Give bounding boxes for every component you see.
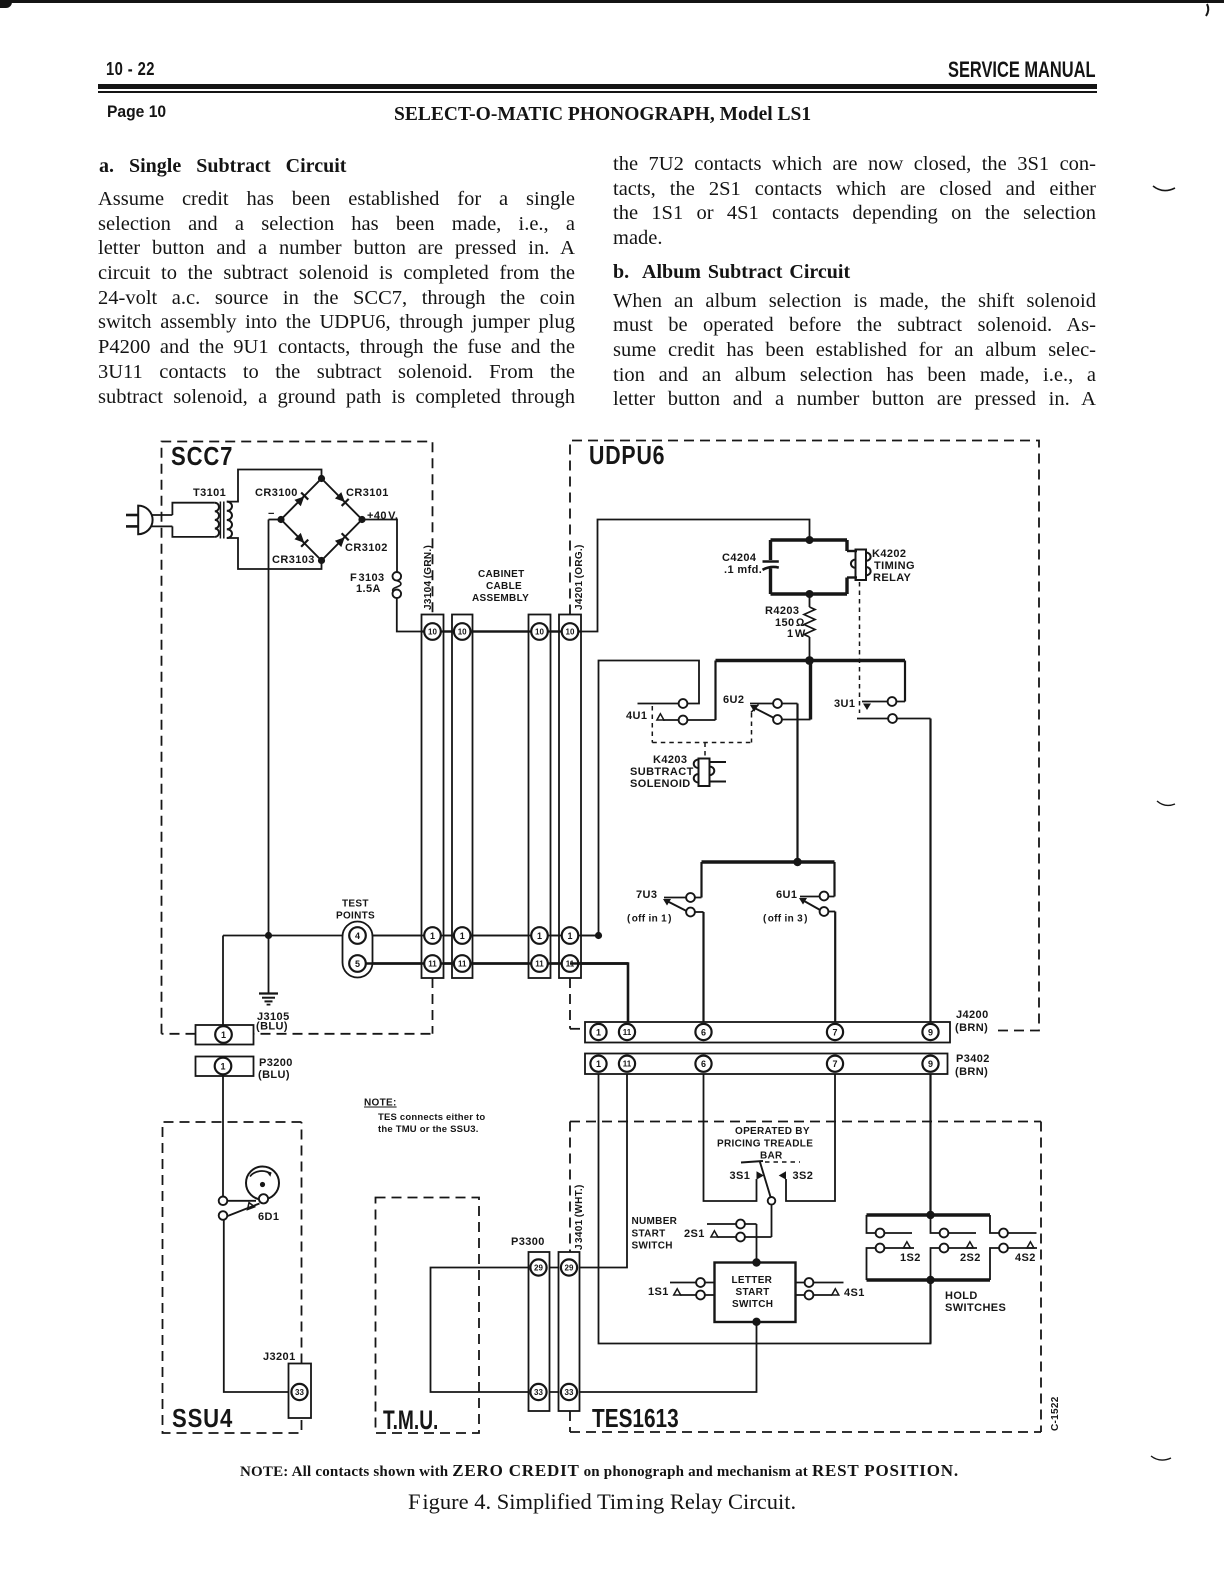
bus down to 6U2 lower contact [809, 661, 812, 720]
svg-text:(BRN): (BRN) [955, 1022, 988, 1034]
test point 4 [349, 927, 366, 944]
svg-text:UDPU6: UDPU6 [589, 441, 665, 471]
diode CR3102 [335, 533, 349, 547]
svg-text:NOTE:: NOTE: [364, 1098, 397, 1109]
svg-text:CABINET: CABINET [478, 569, 525, 580]
wire 6U1 lower to J4200 pin 7 [834, 912, 836, 1023]
svg-text:4S1: 4S1 [844, 1287, 865, 1299]
bus right end down to 3U1 upper contact [904, 661, 906, 702]
switch 3S1 contact [757, 1171, 764, 1179]
switch 2S1 [707, 1220, 772, 1242]
left column body [98, 188, 575, 410]
switch 1S1 [670, 1278, 715, 1299]
Page 10 [107, 102, 166, 122]
wire P3402 pin9 down to hold switches [929, 1074, 931, 1215]
svg-text:1: 1 [460, 931, 465, 941]
svg-text:1: 1 [596, 1028, 601, 1038]
P3402 connector row [585, 1054, 948, 1075]
wire 6D1 lower down to J3201 pin 33 [224, 1220, 289, 1392]
svg-text:3S1: 3S1 [730, 1170, 751, 1182]
stray mark right margin 1 [1153, 186, 1175, 191]
J3201 connector box [289, 1364, 312, 1419]
hold switches top rail [867, 1213, 991, 1216]
svg-text:SWITCHES: SWITCHES [945, 1302, 1006, 1314]
diode CR3103 [294, 533, 308, 547]
junction bus [805, 656, 814, 665]
svg-text:SWITCH: SWITCH [732, 1299, 773, 1310]
svg-text:CABLE: CABLE [486, 581, 522, 592]
loop bottom [771, 592, 848, 595]
switch 7U3 [663, 893, 704, 916]
svg-text:1.5A: 1.5A [356, 583, 381, 595]
svg-text:the TMU or the SSU3.: the TMU or the SSU3. [378, 1124, 479, 1135]
junction at loop bottom [806, 590, 814, 598]
connector column J4201 [559, 615, 581, 979]
junction at loop top [806, 536, 814, 544]
diode CR3101 [335, 492, 349, 506]
svg-text:T.M.U.: T.M.U. [383, 1405, 438, 1435]
svg-text:P3402: P3402 [956, 1053, 990, 1065]
svg-text:10: 10 [458, 628, 467, 637]
svg-text:1S2: 1S2 [900, 1252, 921, 1264]
wire bottom rail down to pin1 return [929, 1280, 931, 1344]
svg-text:5: 5 [355, 959, 360, 969]
svg-text:9: 9 [928, 1028, 933, 1038]
svg-text:C4204: C4204 [722, 552, 757, 564]
loop left with capacitor gap [769, 540, 772, 560]
svg-text:J 3401 (WHT.): J 3401 (WHT.) [574, 1184, 585, 1250]
svg-text:BAR: BAR [760, 1151, 783, 1162]
svg-text:9: 9 [928, 1059, 933, 1069]
capacitor C4204 [763, 562, 779, 570]
svg-text:1: 1 [221, 1030, 226, 1040]
wires between P3300 and J3401 [539, 1267, 570, 1269]
svg-text:4U1: 4U1 [626, 710, 647, 722]
wire: pin 10 row across cabinet cable [421, 630, 570, 632]
switch 6D1 [219, 1197, 260, 1220]
wire 7U3 lower to J4200 pin 6 [702, 912, 704, 1022]
svg-text:1: 1 [567, 931, 572, 941]
bus left end down to 4U1 lower wire [714, 661, 716, 721]
SCC7 unit dashed border [162, 442, 433, 1034]
stray mark right margin 2 [1157, 801, 1175, 805]
wire resistor to junction [809, 637, 811, 661]
svg-text:J4201 (ORG.): J4201 (ORG.) [574, 544, 585, 610]
svg-text:11: 11 [428, 960, 437, 969]
treadle switch arm [760, 1161, 771, 1198]
resistor R4203 [804, 607, 815, 637]
svg-text:SWITCH: SWITCH [632, 1241, 673, 1252]
svg-text:TEST: TEST [342, 899, 369, 910]
svg-text:3S2: 3S2 [793, 1170, 814, 1182]
svg-text:1 W: 1 W [787, 628, 806, 640]
svg-text:C-1522: C-1522 [1050, 1396, 1061, 1431]
junction ground net [265, 932, 272, 939]
test points stadium [343, 922, 373, 978]
TMU jumper loop pins 29-33 [431, 1268, 539, 1393]
svg-text:(BLU): (BLU) [256, 1021, 288, 1033]
switch 4S1 [796, 1278, 844, 1299]
header left: 10 - 22 [106, 59, 155, 80]
svg-text:33: 33 [534, 1388, 543, 1397]
switch 2S2 [931, 1215, 978, 1280]
main thick bus at 660.5 [716, 659, 906, 662]
cable column right pins [531, 623, 548, 640]
letter start switch box [715, 1263, 796, 1323]
arm wire down to 2S1 [771, 1205, 773, 1237]
bottom note [240, 1461, 959, 1481]
connector column cabinet cable right [529, 615, 551, 979]
timing relay loop top [771, 538, 848, 541]
T.M.U. unit dashed border [376, 1198, 480, 1434]
svg-text:T3101: T3101 [193, 487, 226, 499]
svg-text:11: 11 [535, 960, 544, 969]
svg-text:4S2: 4S2 [1015, 1252, 1036, 1264]
svg-text:J3104 (GRN.): J3104 (GRN.) [423, 545, 434, 610]
svg-text:OPERATED BY: OPERATED BY [735, 1126, 810, 1137]
svg-text:PRICING TREADLE: PRICING TREADLE [717, 1139, 813, 1150]
right column body top [613, 153, 1096, 252]
svg-text:6U2: 6U2 [723, 694, 744, 706]
switch 4S2 [990, 1215, 1037, 1280]
redraw pin1/11 row wires over boxes [373, 935, 599, 937]
svg-text:29: 29 [565, 1264, 574, 1273]
7U3/6U1 bus [702, 860, 835, 863]
svg-text:J3201: J3201 [263, 1351, 296, 1363]
cable column left pins [454, 623, 471, 640]
connector column cabinet cable left [452, 615, 473, 979]
wire P3402 pin6 down to 3S1 [704, 1074, 757, 1201]
svg-text:NUMBER: NUMBER [632, 1216, 678, 1227]
svg-text:2S2: 2S2 [960, 1252, 981, 1264]
svg-text:CR3102: CR3102 [345, 542, 388, 554]
header right: SERVICE MANUAL [948, 57, 1096, 83]
svg-text:(BRN): (BRN) [955, 1066, 988, 1078]
svg-text:29: 29 [534, 1264, 543, 1273]
fuse F3103 [393, 572, 402, 598]
connector column J3104 [422, 615, 444, 979]
SSU4: wire P3200 down to 6D1 [222, 1075, 224, 1198]
hold switches bottom rail [867, 1278, 991, 1281]
svg-text:TES1613: TES1613 [592, 1404, 679, 1433]
switch 4U1 [657, 699, 716, 724]
wire: branch down to J3105 pin 1 [222, 936, 224, 1029]
mechanical link relay to 3U1 [859, 582, 861, 713]
svg-text:11: 11 [623, 1060, 632, 1069]
svg-text:TES connects either to: TES connects either to [378, 1112, 485, 1123]
switch 3S2 contact [779, 1171, 786, 1179]
svg-text:CR3100: CR3100 [255, 487, 298, 499]
svg-text:7: 7 [832, 1028, 837, 1038]
J3105 connector box [196, 1025, 254, 1045]
svg-text:R4203: R4203 [765, 605, 799, 617]
svg-text:11: 11 [623, 1028, 632, 1037]
svg-text:7: 7 [832, 1059, 837, 1069]
switch 6U1 [799, 892, 835, 916]
wire P3402 pin7 down to 3S2 [786, 1074, 835, 1201]
wire 6U2 upper contact down to 7U3/6U1 bus [796, 704, 798, 863]
svg-text:SUBTRACT: SUBTRACT [630, 766, 694, 778]
svg-text:CR3101: CR3101 [346, 487, 389, 499]
svg-text:6U1: 6U1 [776, 889, 797, 901]
svg-text:11: 11 [458, 960, 467, 969]
svg-text:P3300: P3300 [511, 1236, 545, 1248]
svg-text:K4202: K4202 [872, 548, 906, 560]
svg-text:2S1: 2S1 [684, 1228, 705, 1240]
UDPU6 unit dashed border [570, 441, 1039, 1031]
svg-text:SCC7: SCC7 [171, 442, 233, 471]
junction letter switch top [752, 1258, 760, 1266]
wire: minus node to ground vertical [269, 519, 282, 521]
J4200 connector row [585, 1022, 950, 1043]
svg-text:33: 33 [295, 1388, 304, 1397]
wire: J4201 pin10 up and over to timing relay loop [570, 520, 810, 632]
svg-text:TIMING: TIMING [874, 560, 915, 572]
junction letter switch bottom [752, 1318, 760, 1326]
top page edge line [0, 0, 1224, 3]
treadle bar [741, 1161, 763, 1163]
svg-text:6: 6 [701, 1028, 706, 1038]
svg-text:START: START [736, 1287, 770, 1298]
svg-text:SSU4: SSU4 [172, 1404, 233, 1433]
TES1613 unit dashed border [570, 1122, 1041, 1433]
svg-text:P3200: P3200 [259, 1057, 293, 1069]
transformer T3101 [172, 470, 321, 570]
svg-text:1: 1 [220, 1062, 225, 1072]
bridge rectifier diamond [277, 475, 365, 564]
svg-text:10: 10 [535, 628, 544, 637]
heading b [613, 261, 850, 284]
svg-text:RELAY: RELAY [873, 572, 912, 584]
svg-text:START: START [632, 1229, 666, 1240]
wire loop bottom to resistor [809, 594, 811, 607]
wire P3402 pin11 down to J3401 pin 29 [569, 1074, 627, 1268]
svg-text:10: 10 [428, 628, 437, 637]
svg-text:(BLU): (BLU) [258, 1069, 290, 1081]
svg-text:1: 1 [596, 1059, 601, 1069]
J3401 connector column [559, 1252, 580, 1411]
P3200 connector box [196, 1057, 254, 1077]
right column body lower [613, 290, 1096, 413]
relay K4202 coil [851, 550, 871, 581]
wire: +40V to fuse [362, 520, 397, 573]
heading a [99, 155, 346, 178]
svg-text:33: 33 [565, 1388, 574, 1397]
header double rule [98, 84, 1097, 89]
svg-text:6D1: 6D1 [258, 1211, 279, 1223]
wire P3402 pin1 down and across to hold switches return [599, 1074, 931, 1344]
J3104 pins 10,1,11 [424, 623, 441, 640]
svg-text:HOLD: HOLD [945, 1290, 978, 1302]
svg-text:J4200: J4200 [956, 1009, 989, 1021]
svg-text:( off in 1 ): ( off in 1 ) [627, 914, 672, 925]
switch 3U1 [857, 697, 931, 723]
switch 1S2 [867, 1215, 915, 1280]
J4201 pins 10,1,11 [562, 623, 579, 640]
svg-text:.1 mfd.: .1 mfd. [724, 564, 762, 576]
wire J4201 pin1 junction down to J4200 pin1 (already drawn riser); pin11 to J4200 pin 11 [570, 964, 628, 1023]
svg-text:LETTER: LETTER [732, 1275, 773, 1286]
wire letter switch bottom to J3401 pin 33 [569, 1322, 757, 1392]
svg-text:( off in 3 ): ( off in 3 ) [763, 914, 808, 925]
6D1 cam [246, 1167, 279, 1204]
loop right with relay stubs [845, 540, 848, 551]
wire 3U1 lower to J4200 pin 9 [929, 719, 931, 1023]
wire: pin 11 row from test point 5 [358, 962, 629, 965]
ground [259, 994, 278, 1005]
svg-text:POINTS: POINTS [336, 911, 375, 922]
switch 6U2 [750, 699, 811, 724]
svg-text:1: 1 [537, 931, 542, 941]
svg-text:3U1: 3U1 [834, 698, 855, 710]
wire: ground net to test point 4 and J-columns pin 1 row [223, 935, 599, 937]
svg-text:7U3: 7U3 [636, 889, 657, 901]
svg-text:CR3103: CR3103 [272, 554, 315, 566]
stray mark top right [1206, 4, 1208, 16]
figure caption [408, 1489, 796, 1515]
svg-text:K4203: K4203 [653, 754, 687, 766]
svg-text:ASSEMBLY: ASSEMBLY [472, 593, 529, 604]
svg-text:4: 4 [355, 931, 360, 941]
svg-text:1S1: 1S1 [648, 1286, 669, 1298]
P3300 connector column [529, 1252, 550, 1411]
SSU4 unit dashed border [163, 1122, 302, 1433]
wire 2S1 upper to letter start switch top [756, 1224, 758, 1263]
svg-text:SOLENOID: SOLENOID [630, 778, 691, 790]
wire: fuse to J3104 pin 10 [397, 598, 421, 632]
svg-text:6: 6 [701, 1059, 706, 1069]
svg-text:−: − [268, 508, 275, 520]
stray mark right margin 3 [1151, 1456, 1171, 1460]
mechanical link 4U1/6U2 to subtract solenoid [652, 706, 751, 757]
svg-text:10: 10 [566, 628, 575, 637]
AC line plug [126, 506, 172, 535]
test point 5 [349, 955, 366, 972]
title [394, 104, 811, 126]
solenoid K4203 [694, 759, 726, 787]
junction at pin1 row [595, 932, 602, 939]
thin net: pin1 riser to 4U1 upper contact [599, 661, 700, 936]
svg-text:1: 1 [430, 931, 435, 941]
diode CR3100 [294, 492, 308, 506]
